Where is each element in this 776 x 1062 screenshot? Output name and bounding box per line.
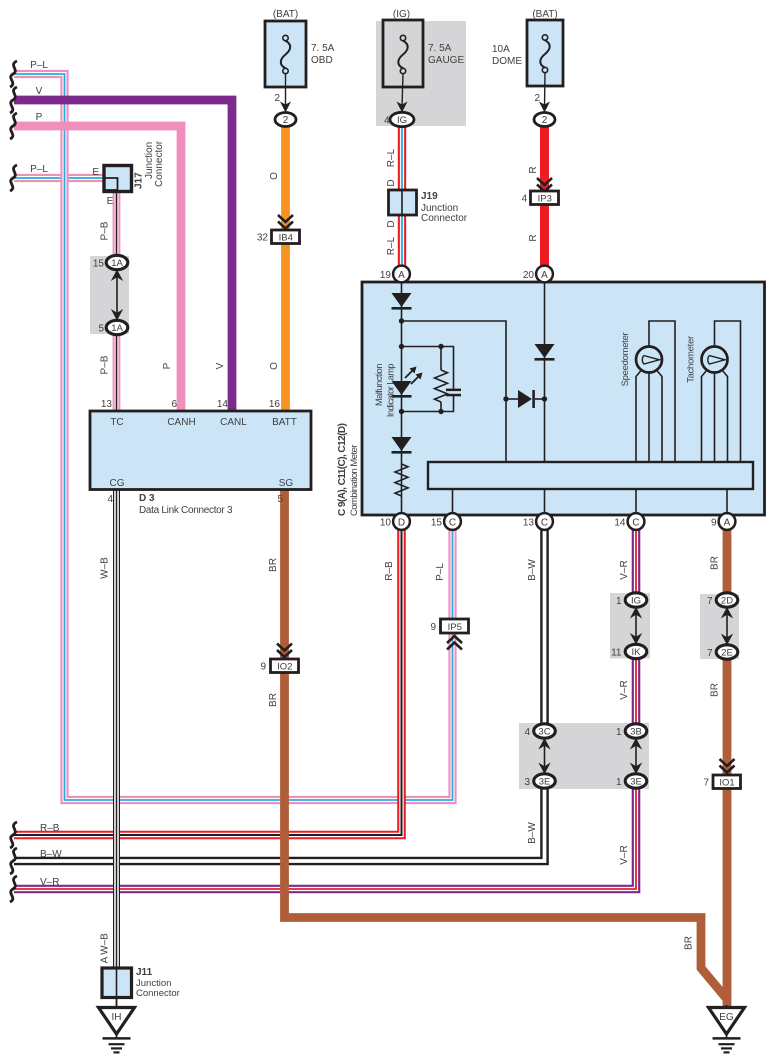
svg-text:R: R [528,166,539,173]
svg-text:7: 7 [703,778,709,789]
label 14 at D3 pin CANL [217,399,229,410]
J19 junction connector box [389,190,417,215]
fuse 7.5A GAUGE box [383,20,423,87]
svg-text:13: 13 [523,517,535,528]
connector IP3 with chevrons [531,178,559,205]
speedometer symbol [636,321,675,462]
svg-text:W–B: W–B [100,933,111,955]
svg-text:P–L: P–L [30,164,48,175]
lead and arrow below OBD fuse [280,74,291,113]
diode D2 below pin 20(A) [535,344,555,361]
labels inside D3 box [110,417,297,489]
label wire R-L lower [386,236,397,255]
svg-text:BR: BR [684,936,695,950]
node B1 junction dot [503,396,508,401]
wire W-B: D3 pin CG down to J11 [113,489,120,968]
svg-text:V: V [36,86,43,97]
label 9 at IO2 [260,662,266,673]
break squiggle R-B entry [10,822,17,848]
label wire B-W rotated lower [527,822,538,844]
horizontal diode D4 between branch and 20(A) line [506,390,545,408]
label pin 2 OBD fuse [274,93,280,104]
label J19 Junction Connector [421,191,468,224]
label D above J19 [386,179,397,186]
meter pin circle 19(A) [393,266,410,283]
node A2 junction dot [399,344,404,349]
svg-text:Connector: Connector [136,988,180,999]
label wire O lower [269,362,280,370]
svg-text:1: 1 [616,727,622,738]
label 15 at 1A upper [93,259,105,270]
svg-text:15: 15 [93,259,105,270]
label V entry [36,86,43,97]
svg-text:C: C [632,517,639,528]
wire O: OBD fuse to IB4 to D3 pin BATT [281,127,290,412]
svg-text:3C: 3C [538,727,550,738]
svg-text:R–L: R–L [386,236,397,255]
svg-text:4: 4 [521,194,527,205]
connector pair 3B/3E with arrows [625,724,647,788]
label 9 at IP5 [430,622,436,633]
label P entry [36,112,43,123]
meter pin circle 20(A) [536,266,553,283]
connector IO1 with chevrons [713,759,741,789]
connector pair 2D/2E with arrows [716,593,738,659]
svg-text:P–B: P–B [100,355,111,374]
label wire BR rotated at bend [684,936,695,950]
label 4 below D3 CG [107,494,113,505]
svg-text:(IG): (IG) [393,9,410,20]
svg-text:A: A [541,270,548,281]
wire BR: meter pin 9(A) to 2D connector [723,528,732,600]
svg-text:Connector: Connector [154,140,165,187]
label C 9(A), C11(C), C12(D) Combination Meter rotated [337,423,360,516]
svg-text:IB4: IB4 [279,233,293,244]
svg-text:D: D [386,179,397,186]
wire V: left entry to D3 pin CANL [14,100,232,411]
node A1 junction dot [399,318,404,323]
label 7 at 2E [707,648,713,659]
label wire R-B rotated [384,561,395,581]
wire P-L second entry to J17 [14,174,104,182]
combination meter box [362,282,765,515]
svg-text:CANL: CANL [220,417,247,428]
tachometer symbol [702,321,741,462]
svg-text:15: 15 [431,517,443,528]
label 16 at D3 pin BATT [269,399,281,410]
label wire BR rotated left upper [268,558,279,572]
label wire P rotated [162,362,173,369]
svg-text:BR: BR [710,556,721,570]
label 7.5A OBD [311,43,335,66]
svg-text:(BAT): (BAT) [532,9,557,20]
wire R: DOME fuse to IP3 to meter pin 20(A) [540,127,549,271]
label 5 at 1A lower [98,324,104,335]
meter pin circle 15(C) [444,513,461,530]
svg-text:9: 9 [430,622,436,633]
label P-L top entry [30,60,48,71]
label wire R lower [528,234,539,241]
svg-text:13: 13 [101,399,113,410]
svg-text:10A: 10A [492,44,510,55]
wire: internal line bus rectangle to pin 9(A) [726,489,728,515]
break squiggle B-W entry [10,848,17,874]
svg-text:32: 32 [257,233,269,244]
diode D1 below pin 19(A) [392,293,412,310]
wire V-R: meter pin 14(C) to IG connector [632,528,641,600]
svg-text:2: 2 [534,93,540,104]
label wire BR rotated right middle [710,683,721,697]
svg-text:O: O [269,172,280,180]
svg-text:(BAT): (BAT) [273,9,298,20]
svg-text:Tachometer: Tachometer [686,336,697,383]
wire V-R: 3E connector down and across to left entry [14,781,636,889]
LED malfunction indicator lamp [392,367,423,398]
svg-text:P–B: P–B [100,221,111,240]
label (BAT) above DOME fuse [532,9,557,20]
label wire BR rotated right upper [710,556,721,570]
label wire O upper [269,172,280,180]
label 32 at IB4 [257,233,269,244]
svg-text:IH: IH [112,1012,122,1023]
svg-text:A: A [724,517,731,528]
svg-text:TC: TC [110,417,123,428]
svg-text:5: 5 [277,494,283,505]
label (IG) above GAUGE fuse [393,9,410,20]
label 14 at pin 14(C) [614,517,626,528]
svg-text:CG: CG [110,478,125,489]
svg-text:2: 2 [283,115,289,126]
label wire R upper [528,166,539,173]
ground EG triangle and symbol [709,1005,745,1052]
svg-text:2: 2 [542,115,548,126]
label 10A DOME [492,44,522,67]
wire R-L: GAUGE fuse through J19 to meter pin 19(A) [398,127,406,271]
label 7 at IO1 [703,778,709,789]
terminal oval IG below GAUGE fuse [390,112,414,126]
gray background of 3C/3B/3E connector pairs [519,723,649,789]
svg-text:V–R: V–R [619,680,630,699]
svg-text:7. 5A: 7. 5A [428,43,452,54]
wire: internal branch from node to bus rectangle [402,321,507,462]
gray background of 1A connector pair [90,256,129,334]
internal bus rectangle [428,462,753,489]
label D below J19 [386,220,397,227]
svg-text:3E: 3E [539,777,551,788]
label 1 at second 3E [616,777,622,788]
connector pair 1A/1A with arrows [106,255,128,334]
wire: internal line bus rectangle to pin 13(C) [544,489,546,515]
svg-text:Combination Meter: Combination Meter [349,445,360,516]
wire V-R: IK connector to 3B connector [632,652,641,732]
fuse 7.5A OBD box [265,21,306,87]
svg-text:C 9(A), C11(C), C12(D): C 9(A), C11(C), C12(D) [337,423,348,516]
label wire P-B upper [100,221,111,240]
terminal oval 2 below DOME fuse [534,113,555,127]
break squiggle P-L second entry [10,165,17,191]
label 1 at IG [616,596,622,607]
svg-text:IO1: IO1 [719,778,734,789]
label V-R at left entry [40,877,59,888]
svg-text:BR: BR [268,693,279,707]
D3 Data Link Connector 3 box [90,411,311,490]
svg-text:4: 4 [384,116,390,127]
gray background of 2D/2E connector pair [700,594,739,659]
svg-text:B–W: B–W [40,849,62,860]
label Speedometer rotated [620,333,631,387]
svg-text:IO2: IO2 [277,662,292,673]
label 19 at pin 19(A) [380,270,392,281]
meter pin circle 9(A) [719,513,736,530]
svg-text:19: 19 [380,270,392,281]
label 9 at pin 9(A) [711,517,717,528]
break squiggle V entry [10,87,17,113]
svg-text:P: P [36,112,43,123]
svg-text:GAUGE: GAUGE [428,55,464,66]
wire: internal line bus rectangle to pin 14(C) [635,489,637,515]
svg-text:IG: IG [397,115,407,126]
J17 junction connector box [104,166,132,192]
svg-text:O: O [269,362,280,370]
capacitor C1 in MIL network [446,389,461,397]
label wire B-W rotated upper [527,559,538,581]
svg-text:IG: IG [631,596,641,607]
svg-text:R: R [528,234,539,241]
svg-text:BATT: BATT [272,417,297,428]
svg-text:J19: J19 [421,191,438,202]
svg-text:5: 5 [98,324,104,335]
terminal oval 2 below OBD fuse [275,113,296,127]
svg-text:2E: 2E [721,648,733,659]
wire BR: 2E connector through IO1 down to EG ground [723,652,732,1010]
meter pin circle 10(D) [393,513,410,530]
label 15 at pin 15(C) [431,517,443,528]
svg-text:1: 1 [616,777,622,788]
svg-text:4: 4 [107,494,113,505]
svg-text:7. 5A: 7. 5A [311,43,335,54]
svg-text:Speedometer: Speedometer [620,333,631,387]
svg-text:D: D [386,220,397,227]
node C1 junction dot [542,396,547,401]
svg-text:B–W: B–W [527,822,538,844]
svg-text:3: 3 [524,777,530,788]
svg-text:P–L: P–L [30,60,48,71]
wire R-B: meter pin 10(D) down and across to left entry [14,528,402,835]
svg-text:R–B: R–B [40,823,60,834]
label 6 at D3 pin CANH [171,399,177,410]
label wire R-L upper [386,148,397,167]
svg-text:R–L: R–L [386,148,397,167]
svg-text:9: 9 [711,517,717,528]
wire B-W: 3E connector down and across to left entry [14,781,545,861]
svg-text:C: C [449,517,456,528]
label 1 at 3B [616,727,622,738]
svg-text:OBD: OBD [311,55,333,66]
node A3 junction dot [438,344,443,349]
label R-B at left entry [40,823,60,834]
wire P: left entry to D3 pin CANH [14,126,181,411]
label wire BR rotated left lower [268,693,279,707]
label Tachometer rotated [686,336,697,383]
svg-text:P: P [162,362,173,369]
svg-text:D 3: D 3 [139,493,155,504]
lead and arrow below GAUGE fuse [397,74,408,113]
svg-text:14: 14 [217,399,229,410]
label 11 at IK [611,648,622,659]
label D 3 Data Link Connector 3 [139,493,233,516]
svg-text:E: E [92,167,99,178]
svg-text:Malfunction: Malfunction [374,364,384,406]
svg-text:1A: 1A [111,258,123,269]
svg-text:EG: EG [719,1012,734,1023]
wire P-L net: top-left entry, down, across bottom, up to pin 15(C) [14,74,453,800]
svg-text:6: 6 [171,399,177,410]
svg-text:2: 2 [274,93,280,104]
label wire V rotated [215,362,226,369]
svg-text:7: 7 [707,596,713,607]
svg-text:V–R: V–R [40,877,59,888]
fuse 10A DOME box [527,20,563,86]
wire B-W: meter pin 13(C) to 3C connector [540,528,549,731]
svg-text:E: E [107,196,114,207]
label 7.5A GAUGE [428,43,464,66]
svg-text:V–R: V–R [619,560,630,579]
connector pair IG/IK with arrows [625,593,647,659]
meter pin circle 13(C) [536,513,553,530]
svg-text:1A: 1A [111,323,123,334]
gray background of GAUGE fuse [376,21,466,126]
meter pin circle 14(C) [628,513,645,530]
label pin 4 at IG oval [384,116,390,127]
svg-text:3B: 3B [630,727,642,738]
label wire V-R rotated middle [619,680,630,699]
label E above J17 [92,167,99,178]
label 4 at IP3 [521,194,527,205]
svg-text:Data Link Connector 3: Data Link Connector 3 [139,505,233,516]
lead and arrow below DOME fuse [539,73,550,113]
svg-text:2D: 2D [721,596,733,607]
label 13 at pin 13(C) [523,517,535,528]
svg-text:W–B: W–B [100,557,111,579]
wire: internal line from pin 20(A) to bus rectangle [544,274,546,462]
break squiggle V-R entry [10,876,17,902]
svg-text:7: 7 [707,648,713,659]
svg-text:BR: BR [710,683,721,697]
svg-text:1: 1 [616,596,622,607]
connector IB4 with chevrons [272,215,300,244]
svg-text:J11: J11 [136,967,153,978]
label pin 2 DOME fuse [534,93,540,104]
label A at J11 [100,956,111,963]
wire P-B: 1A connector to D3 pin TC [113,328,121,412]
svg-text:10: 10 [380,517,392,528]
wire: internal line bus rectangle to pin 15(C) [452,489,454,515]
svg-text:V: V [215,362,226,369]
svg-text:3E: 3E [630,777,642,788]
svg-text:IP3: IP3 [538,194,552,205]
break squiggle P-L top entry [10,61,17,87]
svg-text:4: 4 [524,727,530,738]
label 5 below D3 SG [277,494,283,505]
label P-L second entry [30,164,48,175]
svg-text:A: A [398,270,405,281]
svg-text:16: 16 [269,399,281,410]
label Malfunction Indicator Lamp rotated [374,364,396,418]
label 10 at pin 10(D) [380,517,392,528]
svg-text:IK: IK [632,647,642,658]
svg-text:SG: SG [279,478,294,489]
resistor R2 above pin 10(D) [395,464,408,496]
label 13 at D3 pin TC [101,399,113,410]
svg-text:CANH: CANH [167,417,195,428]
connector pair 3C/3E with arrows [534,724,556,788]
connector IP5 with chevrons below pointing up [441,619,469,650]
svg-text:J17: J17 [134,172,145,189]
label (BAT) above OBD fuse [273,9,298,20]
connector IO2 with chevrons [271,644,299,673]
svg-text:D: D [398,517,405,528]
wire P-B: J17 to 1A connector [113,191,121,263]
wire: MIL parallel network rails [402,347,454,412]
svg-text:14: 14 [614,517,626,528]
label wire V-R rotated lower [619,845,630,864]
resistor R1 in MIL network [435,370,448,402]
label E below J17 [107,196,114,207]
label 4 at 3C [524,727,530,738]
label B-W at left entry [40,849,62,860]
label 3 at 3E [524,777,530,788]
break squiggle P entry [10,113,17,139]
ground IH triangle and symbol [99,998,135,1053]
svg-text:A: A [100,956,111,963]
svg-text:Connector: Connector [421,213,468,224]
wire: internal line from pin 19(A) to pin 10(D) [401,274,403,515]
svg-text:V–R: V–R [619,845,630,864]
label 20 at pin 20(A) [523,270,535,281]
node A4 junction dot [399,409,404,414]
wire BR: D3 pin SG through IO2 across bottom to EG ground [285,489,727,998]
label wire P-L rotated [435,563,446,581]
node A5 junction dot [438,409,443,414]
label wire W-B rotated upper [100,557,111,579]
label J17 Junction Connector rotated [134,140,166,189]
gray background of IG/IK connector pair [610,593,650,659]
label 7 at 2D [707,596,713,607]
J11 junction connector box [102,968,132,1007]
svg-text:P–L: P–L [435,563,446,581]
svg-text:R–B: R–B [384,561,395,581]
svg-text:IP5: IP5 [448,622,462,633]
svg-text:DOME: DOME [492,56,522,67]
svg-text:9: 9 [260,662,266,673]
label wire P-B lower [100,355,111,374]
svg-text:20: 20 [523,270,535,281]
svg-text:C: C [541,517,548,528]
label wire V-R rotated upper [619,560,630,579]
label wire W-B rotated lower [100,933,111,955]
svg-text:Indicator Lamp: Indicator Lamp [386,364,396,418]
svg-text:B–W: B–W [527,559,538,581]
diode D3 lower on MIL line [392,437,412,454]
label J11 Junction Connector [136,967,180,999]
svg-text:BR: BR [268,558,279,572]
svg-text:11: 11 [611,648,622,659]
